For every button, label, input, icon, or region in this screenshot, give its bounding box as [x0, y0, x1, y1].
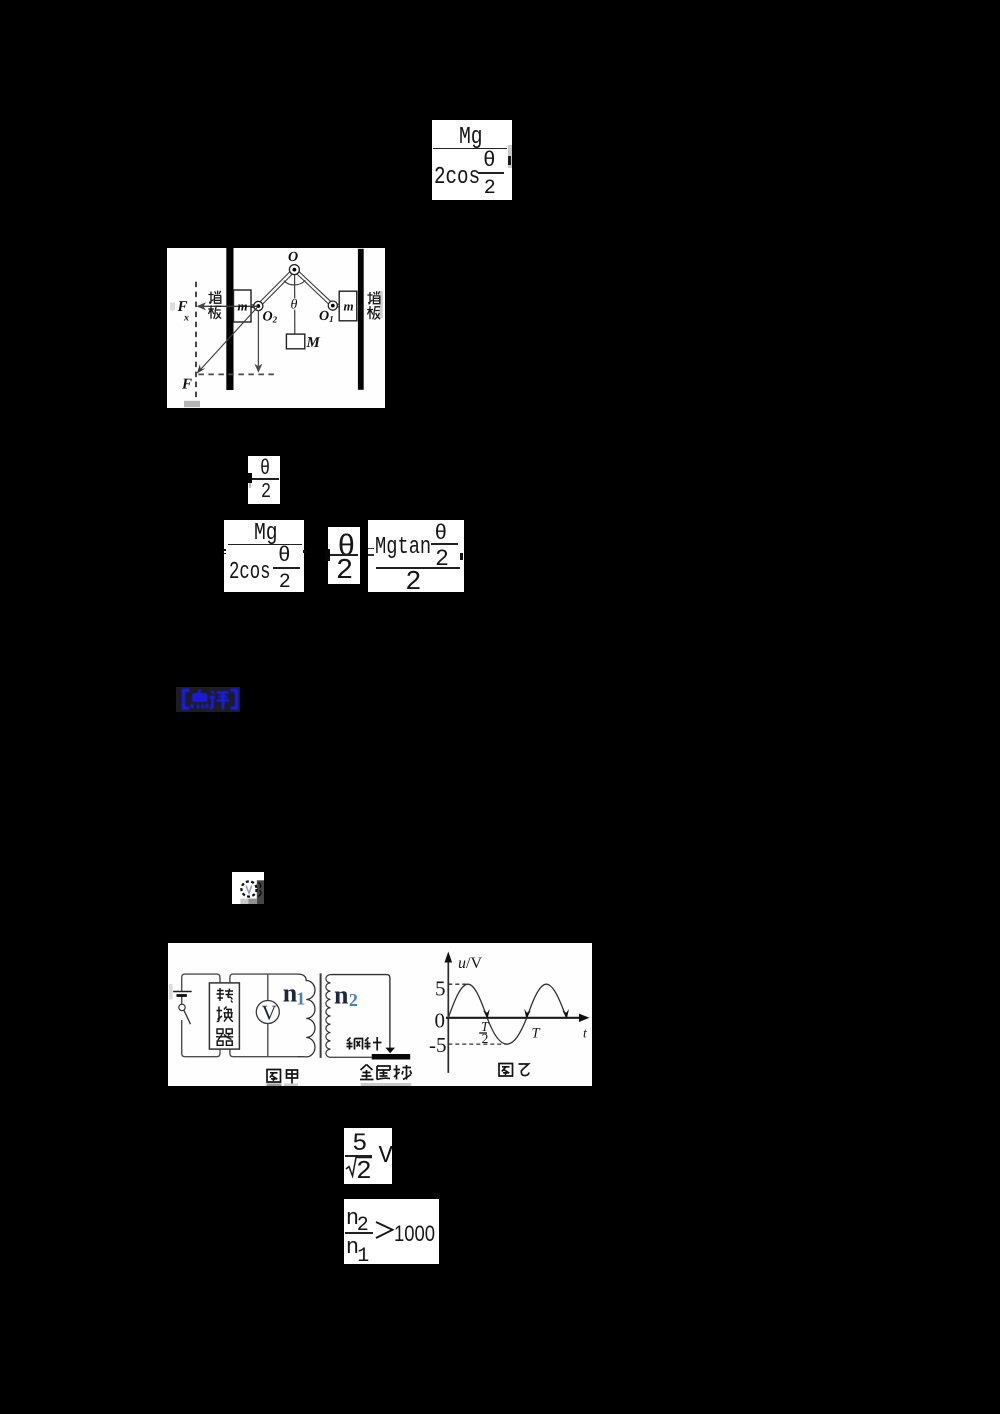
svg-text:θ: θ: [290, 298, 297, 313]
svg-text:2: 2: [349, 990, 358, 1010]
svg-text:5: 5: [435, 977, 446, 1001]
svg-text:O: O: [288, 250, 298, 265]
svg-text:n: n: [334, 980, 349, 1009]
svg-text:/V: /V: [466, 955, 482, 972]
svg-text:x: x: [183, 312, 189, 323]
svg-text:T: T: [532, 1026, 541, 1042]
svg-text:m: m: [343, 299, 353, 314]
svg-text:0: 0: [435, 1008, 446, 1032]
svg-text:m: m: [237, 299, 247, 314]
svg-text:-5: -5: [429, 1033, 447, 1057]
svg-text:F: F: [181, 376, 192, 392]
svg-text:M: M: [305, 335, 320, 351]
svg-text:u: u: [458, 955, 466, 972]
svg-text:1: 1: [296, 988, 305, 1008]
svg-text:V: V: [261, 1001, 276, 1025]
